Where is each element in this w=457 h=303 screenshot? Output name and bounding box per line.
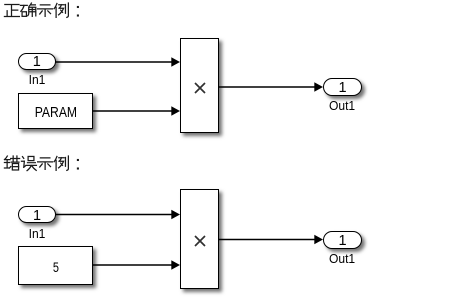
label Out1 (example 2) — [329, 252, 354, 265]
例 — [54, 3, 68, 17]
multiply sign × (example 1) — [192, 80, 208, 96]
确 — [20, 3, 35, 16]
wire In1 to product (example 2) — [56, 210, 180, 219]
wire product to Out1 (example 2) — [219, 235, 323, 244]
product block (example 1) — [180, 38, 219, 134]
例 — [54, 156, 68, 170]
示 — [38, 158, 53, 169]
outport block Out1 (example 1) — [323, 78, 362, 96]
multiply sign × (example 2) — [192, 233, 208, 249]
heading "错误示例:" (wrong example) — [0, 154, 90, 174]
label Out1 (example 1) — [329, 99, 354, 112]
outport block Out1 (example 2) — [323, 231, 362, 249]
错 — [4, 156, 19, 170]
heading "正确示例:" (correct example) — [0, 1, 90, 21]
wire PARAM to product — [93, 106, 180, 115]
inport block In1 (example 2) — [18, 206, 56, 223]
inport block In1 (example 1) — [18, 53, 56, 70]
fullwidth colon — [77, 159, 79, 170]
constant block PARAM — [18, 93, 93, 129]
product block (example 2) — [180, 189, 219, 289]
正 — [4, 4, 19, 16]
误 — [21, 156, 36, 170]
示 — [38, 4, 53, 15]
constant block 5 — [18, 246, 93, 286]
wire product to Out1 (example 1) — [219, 82, 323, 91]
wire constant 5 to product (example 2) — [93, 260, 180, 269]
fullwidth colon — [77, 6, 79, 17]
label In1 (example 2) — [27, 227, 46, 240]
label In1 (example 1) — [27, 73, 46, 86]
